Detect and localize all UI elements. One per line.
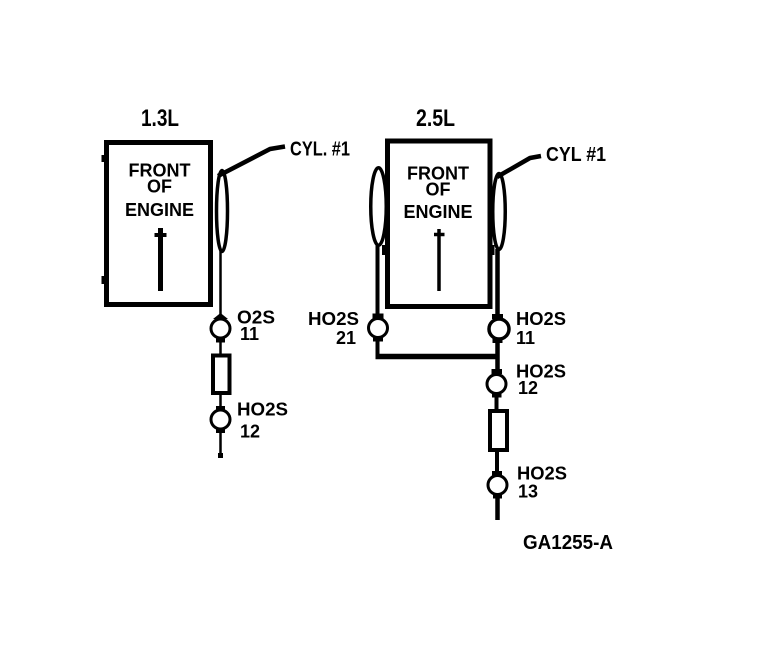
label HO2S 12 (2.5L): [516, 362, 566, 399]
sensor circle HO2S 12 (1.3L): [211, 410, 230, 429]
engine box 2.5L: [382, 141, 495, 307]
wire HO2S 12 to converter (2.5L): [495, 394, 499, 412]
svg-text:ENGINE: ENGINE: [125, 200, 194, 220]
label HO2S 11 (2.5L): [516, 309, 566, 348]
svg-text:12: 12: [240, 422, 260, 442]
text FRONT OF ENGINE (1.3L): [125, 161, 194, 221]
label HO2S 12 (1.3L): [237, 400, 288, 442]
leader line CYL #1 (2.5L): [497, 156, 541, 177]
node nub bottom of HO2S 12 (2.5L): [492, 393, 502, 398]
node nub top of HO2S 13: [492, 471, 502, 476]
label GA1255-A: [523, 532, 613, 554]
node nub bottom of HO2S 11 (2.5L): [493, 339, 503, 344]
node nub bottom of HO2S 21: [373, 337, 383, 342]
sensor circle HO2S 12 (2.5L): [487, 375, 506, 394]
sensor circle HO2S 21: [369, 319, 388, 338]
svg-text:OF: OF: [426, 180, 451, 200]
svg-text:HO2S: HO2S: [516, 309, 566, 329]
node nub bottom of O2S 11: [216, 338, 225, 343]
catalytic converter 1.3L: [213, 356, 230, 394]
svg-text:13: 13: [518, 482, 538, 502]
wire converter to HO2S 12: [219, 393, 222, 410]
svg-text:CYL. #1: CYL. #1: [290, 139, 350, 161]
node nub top of HO2S 21: [373, 314, 384, 319]
sensor circle HO2S 11 (2.5L): [489, 319, 509, 339]
catalytic converter 2.5L: [490, 411, 507, 450]
wire O2S 11 to converter: [219, 338, 222, 356]
svg-text:CYL #1: CYL #1: [546, 144, 606, 166]
sensor circle HO2S 13: [488, 476, 507, 495]
wire ellipse to O2S 11: [219, 250, 222, 320]
svg-text:HO2S: HO2S: [308, 309, 359, 329]
wire horizontal join 2.5L: [376, 354, 500, 360]
label 2.5L: [416, 105, 455, 132]
wire left manifold to HO2S 21: [376, 245, 380, 320]
wire HO2S 21 down leg: [376, 338, 380, 357]
svg-text:HO2S: HO2S: [517, 464, 567, 484]
node nub top of HO2S 12 (2.5L): [492, 369, 503, 374]
node nub bottom of HO2S 12 (1.3L): [216, 429, 225, 434]
svg-text:11: 11: [516, 328, 535, 348]
svg-text:ENGINE: ENGINE: [403, 202, 472, 222]
label CYL #1 (2.5L): [546, 144, 606, 166]
svg-text:1.3L: 1.3L: [141, 105, 179, 132]
svg-text:2.5L: 2.5L: [416, 105, 455, 132]
label O2S 11: [237, 308, 275, 345]
label 1.3L: [141, 105, 179, 132]
wire exhaust tail 1.3L: [218, 429, 223, 458]
svg-text:HO2S: HO2S: [237, 400, 288, 420]
arrow front-of-engine 2.5L: [434, 229, 445, 291]
wire exhaust tail 2.5L: [495, 495, 500, 520]
text FRONT OF ENGINE (2.5L): [403, 164, 472, 223]
svg-text:21: 21: [336, 328, 356, 348]
exhaust manifold ellipse 1.3L: [217, 171, 228, 252]
node nub bottom of HO2S 13: [493, 494, 502, 499]
wire HO2S 11 to HO2S 12: [495, 340, 500, 372]
sensor circle O2S 11: [211, 319, 230, 338]
svg-text:12: 12: [518, 378, 538, 398]
label HO2S 21: [308, 309, 359, 348]
engine box 1.3L: [102, 143, 211, 305]
label HO2S 13: [517, 464, 567, 502]
exhaust manifold ellipse left (2.5L): [371, 168, 387, 246]
node nub top of O2S 11: [213, 313, 228, 319]
wire converter to HO2S 13: [495, 450, 499, 474]
node nub top of HO2S 11 (2.5L): [492, 314, 503, 319]
label CYL. #1 (1.3L): [290, 139, 350, 161]
leader line CYL. #1 (1.3L): [218, 147, 285, 177]
arrow front-of-engine 1.3L: [155, 228, 167, 291]
svg-text:OF: OF: [147, 177, 172, 197]
svg-text:11: 11: [240, 324, 259, 344]
exhaust manifold ellipse right (2.5L): [493, 174, 506, 250]
wire right manifold to HO2S 11: [495, 249, 500, 320]
node nub top of HO2S 12 (1.3L): [216, 406, 225, 411]
svg-text:GA1255-A: GA1255-A: [523, 532, 613, 554]
